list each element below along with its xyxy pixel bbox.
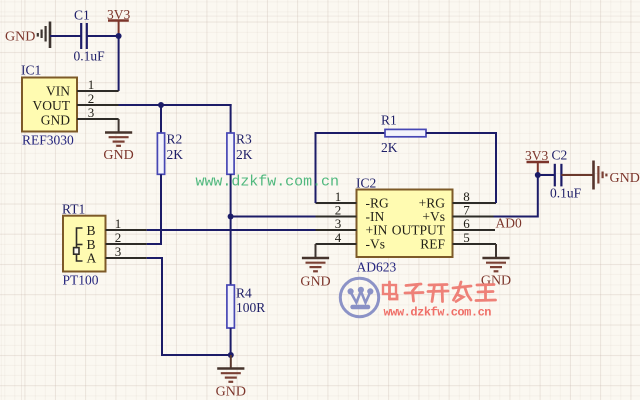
svg-text:www.dzkfw.com.cn: www.dzkfw.com.cn xyxy=(384,306,492,320)
svg-text:+IN: +IN xyxy=(366,223,388,238)
svg-text:REF: REF xyxy=(420,237,445,252)
pin 2 wire (IC2 -IN) xyxy=(316,216,357,218)
svg-text:2: 2 xyxy=(115,230,122,245)
wire R2 bottom to RT1 pin2 corner xyxy=(147,174,161,244)
wire IC2 pin5 down to ground xyxy=(495,244,497,258)
wire node to bottom ground xyxy=(230,355,232,369)
pin 1 wire (IC1 VIN) xyxy=(77,90,119,92)
char wang xyxy=(477,283,494,286)
ground earth symbol under IC2 pin4 xyxy=(302,258,329,271)
wire R3 bottom down through junction to R4 xyxy=(230,174,232,285)
svg-text:REF3030: REF3030 xyxy=(22,133,74,148)
svg-text:IC2: IC2 xyxy=(356,176,376,191)
pin 3 wire (IC1 GND) xyxy=(77,118,119,120)
resistor R3 xyxy=(227,133,234,174)
junction node at R4 bottom xyxy=(228,352,234,358)
svg-text:0.1uF: 0.1uF xyxy=(550,186,582,201)
junction node 3V3/C2 xyxy=(535,172,541,178)
svg-text:5: 5 xyxy=(463,230,470,245)
wire R2 top stub xyxy=(160,105,162,133)
svg-text:GND: GND xyxy=(300,275,330,290)
char zi xyxy=(406,284,421,286)
svg-text:GND: GND xyxy=(610,171,640,186)
pin 3 wire (IC2 +IN) xyxy=(316,229,357,231)
wire IC1 GND pin down to ground xyxy=(118,119,120,133)
svg-text:2K: 2K xyxy=(381,140,398,155)
svg-text:1: 1 xyxy=(88,77,95,92)
svg-text:GND: GND xyxy=(103,148,133,163)
wire IC2 pin4 down to ground xyxy=(315,244,317,258)
pin 7 wire (IC2 +Vs) xyxy=(453,216,494,218)
wire IC2 pin7 up to 3V3 node xyxy=(494,175,538,217)
junction node R3/R4/-IN xyxy=(228,214,234,220)
ground GND power port top-left xyxy=(38,22,50,49)
ground GND power port right xyxy=(594,161,607,190)
junction node at R2 top xyxy=(158,102,164,108)
svg-text:R3: R3 xyxy=(236,132,252,147)
svg-text:-Vs: -Vs xyxy=(366,237,386,252)
svg-text:3V3: 3V3 xyxy=(525,148,548,163)
resistor R2 xyxy=(157,133,164,174)
svg-text:IC1: IC1 xyxy=(21,63,41,78)
pin 2 wire (RT1) xyxy=(106,243,147,245)
pin 1 wire (IC2 -RG) xyxy=(316,202,357,204)
wire C2 to right ground xyxy=(561,174,593,176)
svg-text:4: 4 xyxy=(335,230,342,245)
svg-text:2: 2 xyxy=(88,91,95,106)
op-amp IC2 body xyxy=(357,190,453,258)
svg-text:100R: 100R xyxy=(236,300,265,315)
pin 3 wire (RT1) xyxy=(106,257,147,259)
pin 6 wire (IC2 OUTPUT) xyxy=(453,229,496,231)
ground earth symbol under IC2 pin5 xyxy=(482,258,509,271)
junction node at 3V3/C1 xyxy=(116,33,122,39)
pin 4 wire (IC2 -Vs) xyxy=(316,243,357,245)
pin 5 wire (IC2 REF) xyxy=(453,243,497,245)
svg-text:2K: 2K xyxy=(236,147,253,162)
svg-text:3: 3 xyxy=(88,105,95,120)
svg-text:R2: R2 xyxy=(167,132,183,147)
svg-text:R1: R1 xyxy=(381,113,397,128)
watermark logo W mark xyxy=(348,287,374,307)
wire R1 right to IC2 pin8 xyxy=(426,133,496,203)
svg-text:GND: GND xyxy=(216,385,246,400)
resistor R1 xyxy=(385,129,426,136)
svg-text:VOUT: VOUT xyxy=(33,98,71,113)
wire IC2 pin1 up to R1 xyxy=(316,133,386,203)
svg-text:GND: GND xyxy=(5,30,35,45)
svg-text:2K: 2K xyxy=(167,147,184,162)
svg-text:www.dzkfw.com.cn: www.dzkfw.com.cn xyxy=(196,174,340,191)
power port 3V3 top xyxy=(108,21,129,37)
wire C1 to 3V3 node xyxy=(87,35,119,37)
char dian xyxy=(383,285,396,294)
watermark chinese characters xyxy=(383,282,496,302)
ground earth symbol bottom xyxy=(217,369,244,382)
wire GND to C1 xyxy=(50,35,81,37)
wire R4 bottom to ground node xyxy=(230,328,232,355)
watermark logo circle xyxy=(340,278,378,316)
pin 2 wire (IC1 VOUT) xyxy=(77,104,119,106)
svg-text:3V3: 3V3 xyxy=(107,7,130,22)
svg-text:RT1: RT1 xyxy=(62,202,85,217)
svg-text:PT100: PT100 xyxy=(63,273,99,288)
svg-text:AD623: AD623 xyxy=(357,260,397,275)
svg-text:OUTPUT: OUTPUT xyxy=(392,223,446,238)
wire node to C2 xyxy=(538,174,555,176)
svg-text:B: B xyxy=(87,223,96,238)
wire junction to IC2 -IN xyxy=(231,216,316,218)
ground earth symbol under IC1 xyxy=(105,133,132,146)
wire down to R3 xyxy=(230,104,232,133)
svg-text:R4: R4 xyxy=(236,286,252,301)
svg-text:3: 3 xyxy=(335,216,342,231)
RT1 bracket symbol xyxy=(74,228,83,261)
connector RT1 body xyxy=(63,216,106,272)
pin 1 wire (RT1) xyxy=(106,229,147,231)
wire 3V3 node down to IC1 VIN xyxy=(118,36,120,91)
resistor R4 xyxy=(227,285,235,328)
power port 3V3 right xyxy=(527,162,550,175)
pin 8 wire (IC2 +RG) xyxy=(453,202,497,204)
svg-text:0.1uF: 0.1uF xyxy=(74,49,106,64)
svg-text:6: 6 xyxy=(463,216,470,231)
svg-text:C2: C2 xyxy=(552,148,568,163)
svg-text:GND: GND xyxy=(41,113,70,128)
svg-text:AD0: AD0 xyxy=(496,216,522,231)
svg-text:1: 1 xyxy=(115,216,122,231)
char fa xyxy=(453,286,471,288)
svg-text:C1: C1 xyxy=(74,8,90,23)
wire RT1 pin3 to bottom node xyxy=(147,258,231,355)
svg-text:A: A xyxy=(87,251,97,266)
wire RT1 pin1 to IC2 +IN xyxy=(147,229,316,231)
char kai xyxy=(429,283,447,286)
svg-text:VIN: VIN xyxy=(46,84,70,99)
op-amp/regulator IC1 body xyxy=(22,78,77,132)
svg-text:3: 3 xyxy=(115,244,122,259)
capacitor C2 xyxy=(555,164,562,187)
capacitor C1 xyxy=(81,23,87,49)
wire VOUT net to R3 top xyxy=(119,104,232,106)
